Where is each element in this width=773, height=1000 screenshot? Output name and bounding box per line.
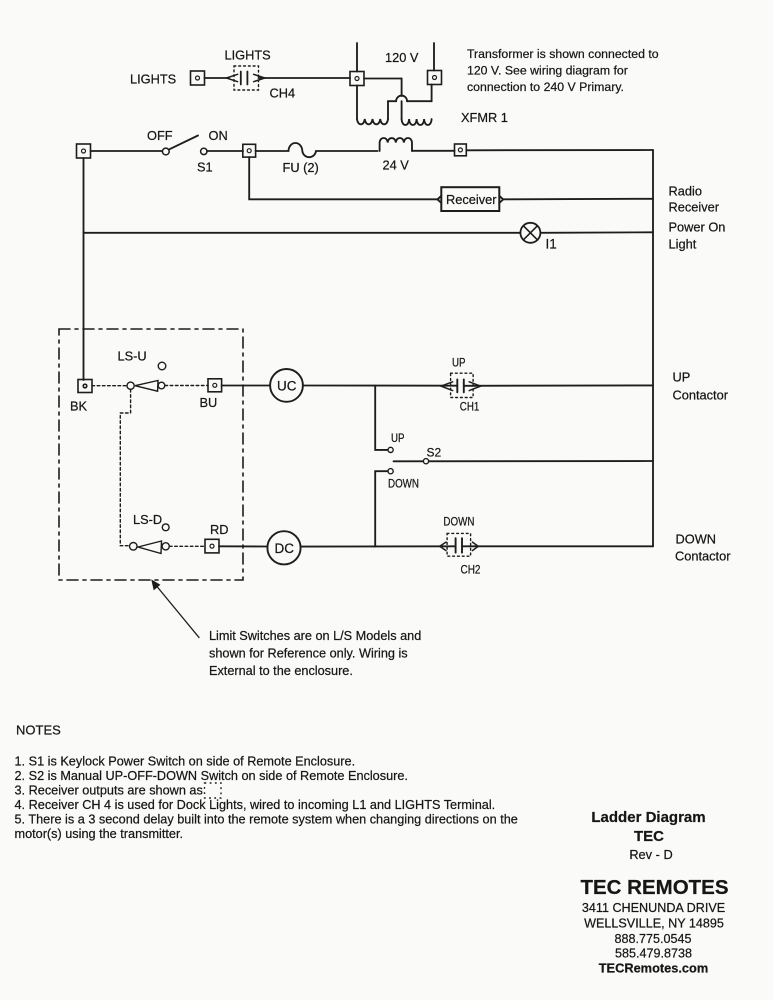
svg-text:UP: UP: [452, 356, 466, 370]
svg-text:ON: ON: [209, 128, 228, 143]
svg-text:BK: BK: [70, 399, 88, 414]
svg-text:585.479.8738: 585.479.8738: [615, 947, 692, 961]
terminal BU: [208, 379, 222, 392]
svg-text:CH2: CH2: [461, 563, 481, 577]
terminal rung1 right: [455, 144, 467, 156]
wire CH4 to transformer terminal: [259, 77, 351, 79]
svg-text:UP: UP: [391, 431, 405, 445]
svg-text:DC: DC: [275, 541, 295, 556]
svg-text:FU (2): FU (2): [283, 160, 319, 175]
svg-text:Ladder Diagram: Ladder Diagram: [591, 809, 705, 826]
wire RD to DC coil: [219, 545, 267, 547]
L2 supply line: [433, 43, 435, 71]
svg-text:S1: S1: [197, 160, 213, 175]
svg-text:Receiver: Receiver: [446, 192, 497, 207]
wire CH1 to right rail: [464, 384, 653, 386]
left rail vertical: [83, 158, 85, 380]
wire DC to CH2: [301, 545, 456, 547]
wire receiver to right rail: [503, 198, 653, 201]
terminal rung1 mid: [243, 144, 256, 157]
svg-text:DOWN: DOWN: [676, 532, 717, 547]
svg-text:888.775.0545: 888.775.0545: [614, 932, 691, 946]
svg-text:LS-D: LS-D: [133, 512, 162, 527]
svg-text:Receiver: Receiver: [669, 200, 720, 215]
wire LS-D to RD (dashed): [170, 545, 206, 547]
svg-text:Light: Light: [669, 237, 697, 252]
DOWN contactor coil DC: [267, 531, 300, 564]
svg-text:TECRemotes.com: TECRemotes.com: [599, 961, 709, 976]
terminal XFMR primary left: [350, 72, 364, 86]
terminal XFMR primary right: [428, 71, 442, 85]
switch S2 DOWN contact: [388, 469, 393, 474]
transformer XFMR 1 primary windings and jumpers: [357, 79, 432, 126]
svg-text:5. There is a 3 second delay b: 5. There is a 3 second delay built into …: [15, 813, 518, 827]
power on light wire left: [84, 232, 521, 234]
svg-text:shown for Reference only. Wiri: shown for Reference only. Wiring is: [209, 647, 408, 661]
svg-text:motor(s) using the transmitter: motor(s) using the transmitter.: [15, 827, 184, 841]
svg-text:Limit Switches are on L/S Mode: Limit Switches are on L/S Models and: [209, 629, 421, 643]
wire BK to LS-U (dashed): [92, 385, 127, 387]
svg-text:Power On: Power On: [669, 220, 726, 235]
svg-text:4. Receiver CH 4 is used for D: 4. Receiver CH 4 is used for Dock Lights…: [15, 798, 496, 812]
limit switch enclosure (dash-dot box): [59, 329, 243, 580]
svg-text:I1: I1: [546, 237, 557, 252]
svg-text:NOTES: NOTES: [16, 723, 61, 738]
fuse FU (2): [256, 143, 378, 157]
wire winding to terminal: [412, 150, 455, 152]
svg-text:Transformer is shown connected: Transformer is shown connected to: [467, 47, 659, 61]
wire terminal to right rail: [466, 149, 653, 151]
svg-text:LIGHTS: LIGHTS: [130, 72, 176, 87]
receiver branch wire: [249, 157, 438, 199]
svg-text:DOWN: DOWN: [443, 515, 474, 529]
svg-text:connection to 240 V Primary.: connection to 240 V Primary.: [467, 80, 624, 94]
svg-text:CH4: CH4: [270, 86, 296, 101]
junction vertical UC line to S2 UP contact: [375, 386, 388, 450]
svg-text:UP: UP: [673, 370, 691, 385]
wire BU to UC coil: [222, 385, 270, 387]
switch S2 pivot: [423, 459, 428, 464]
svg-text:TEC REMOTES: TEC REMOTES: [580, 876, 728, 899]
svg-text:120 V: 120 V: [385, 50, 419, 65]
switch S1: [162, 136, 207, 155]
power on light wire right: [540, 231, 653, 234]
receiver output contact CH1: [441, 373, 481, 397]
terminal BK: [78, 380, 92, 393]
svg-text:LS-U: LS-U: [118, 349, 147, 364]
mechanical link LS-U to LS-D (dotted): [120, 390, 130, 546]
junction vertical S2 DOWN contact to DC line: [375, 471, 388, 546]
wire LS-U to BU (dashed): [165, 385, 208, 387]
svg-text:120 V. See wiring diagram for: 120 V. See wiring diagram for: [467, 64, 628, 78]
secondary winding 24 V: [380, 138, 412, 151]
wire rail to S1: [91, 150, 163, 152]
svg-text:1. S1 is Keylock Power Switch: 1. S1 is Keylock Power Switch on side of…: [15, 755, 356, 769]
wire CH2 to right rail: [462, 545, 653, 547]
svg-text:Rev - D: Rev - D: [629, 847, 672, 862]
svg-text:RD: RD: [210, 522, 228, 537]
svg-text:External to the enclosure.: External to the enclosure.: [209, 664, 353, 678]
UP contactor coil UC: [270, 369, 303, 402]
svg-text:TEC: TEC: [634, 828, 664, 845]
svg-text:S2: S2: [427, 446, 442, 460]
svg-text:OFF: OFF: [147, 128, 173, 143]
svg-text:CH1: CH1: [460, 400, 480, 414]
terminal LIGHTS input: [191, 71, 205, 85]
wire S1 to terminal: [207, 150, 243, 152]
svg-text:XFMR 1: XFMR 1: [461, 110, 508, 125]
limit switch LS-D: [130, 524, 170, 554]
L1 supply line: [356, 43, 358, 72]
wire LIGHTS terminal to CH4: [205, 77, 230, 79]
terminal rung1 left rail top: [77, 144, 91, 158]
receiver output contact CH4: [226, 66, 264, 90]
limit switch LS-U: [127, 362, 166, 391]
svg-text:3. Receiver outputs are shown: 3. Receiver outputs are shown as: [15, 784, 203, 798]
svg-text:Contactor: Contactor: [675, 549, 731, 564]
right rail vertical: [652, 150, 654, 546]
svg-text:BU: BU: [200, 395, 218, 410]
lamp I1: [520, 223, 540, 243]
svg-text:24 V: 24 V: [383, 158, 410, 173]
pointer arrow to enclosure: [152, 581, 199, 638]
svg-text:Radio: Radio: [669, 184, 702, 199]
wire UC to CH1 with junction to S2: [303, 385, 457, 387]
svg-text:2. S2 is Manual UP-OFF-DOWN Sw: 2. S2 is Manual UP-OFF-DOWN Switch on si…: [15, 769, 408, 783]
svg-text:3411 CHENUNDA DRIVE: 3411 CHENUNDA DRIVE: [582, 901, 725, 915]
svg-text:UC: UC: [277, 379, 297, 394]
svg-text:LIGHTS: LIGHTS: [225, 48, 271, 63]
switch S2 UP contact: [388, 447, 393, 452]
svg-text:Contactor: Contactor: [673, 388, 729, 403]
svg-text:DOWN: DOWN: [388, 477, 419, 491]
switch S2 common line with pivot: [394, 460, 654, 462]
receiver output contact CH2: [440, 533, 479, 556]
svg-text:WELLSVILLE, NY 14895: WELLSVILLE, NY 14895: [584, 917, 724, 931]
radio receiver box: [437, 187, 503, 211]
terminal RD: [205, 539, 219, 553]
note 3 dotted box sample: [205, 783, 222, 798]
